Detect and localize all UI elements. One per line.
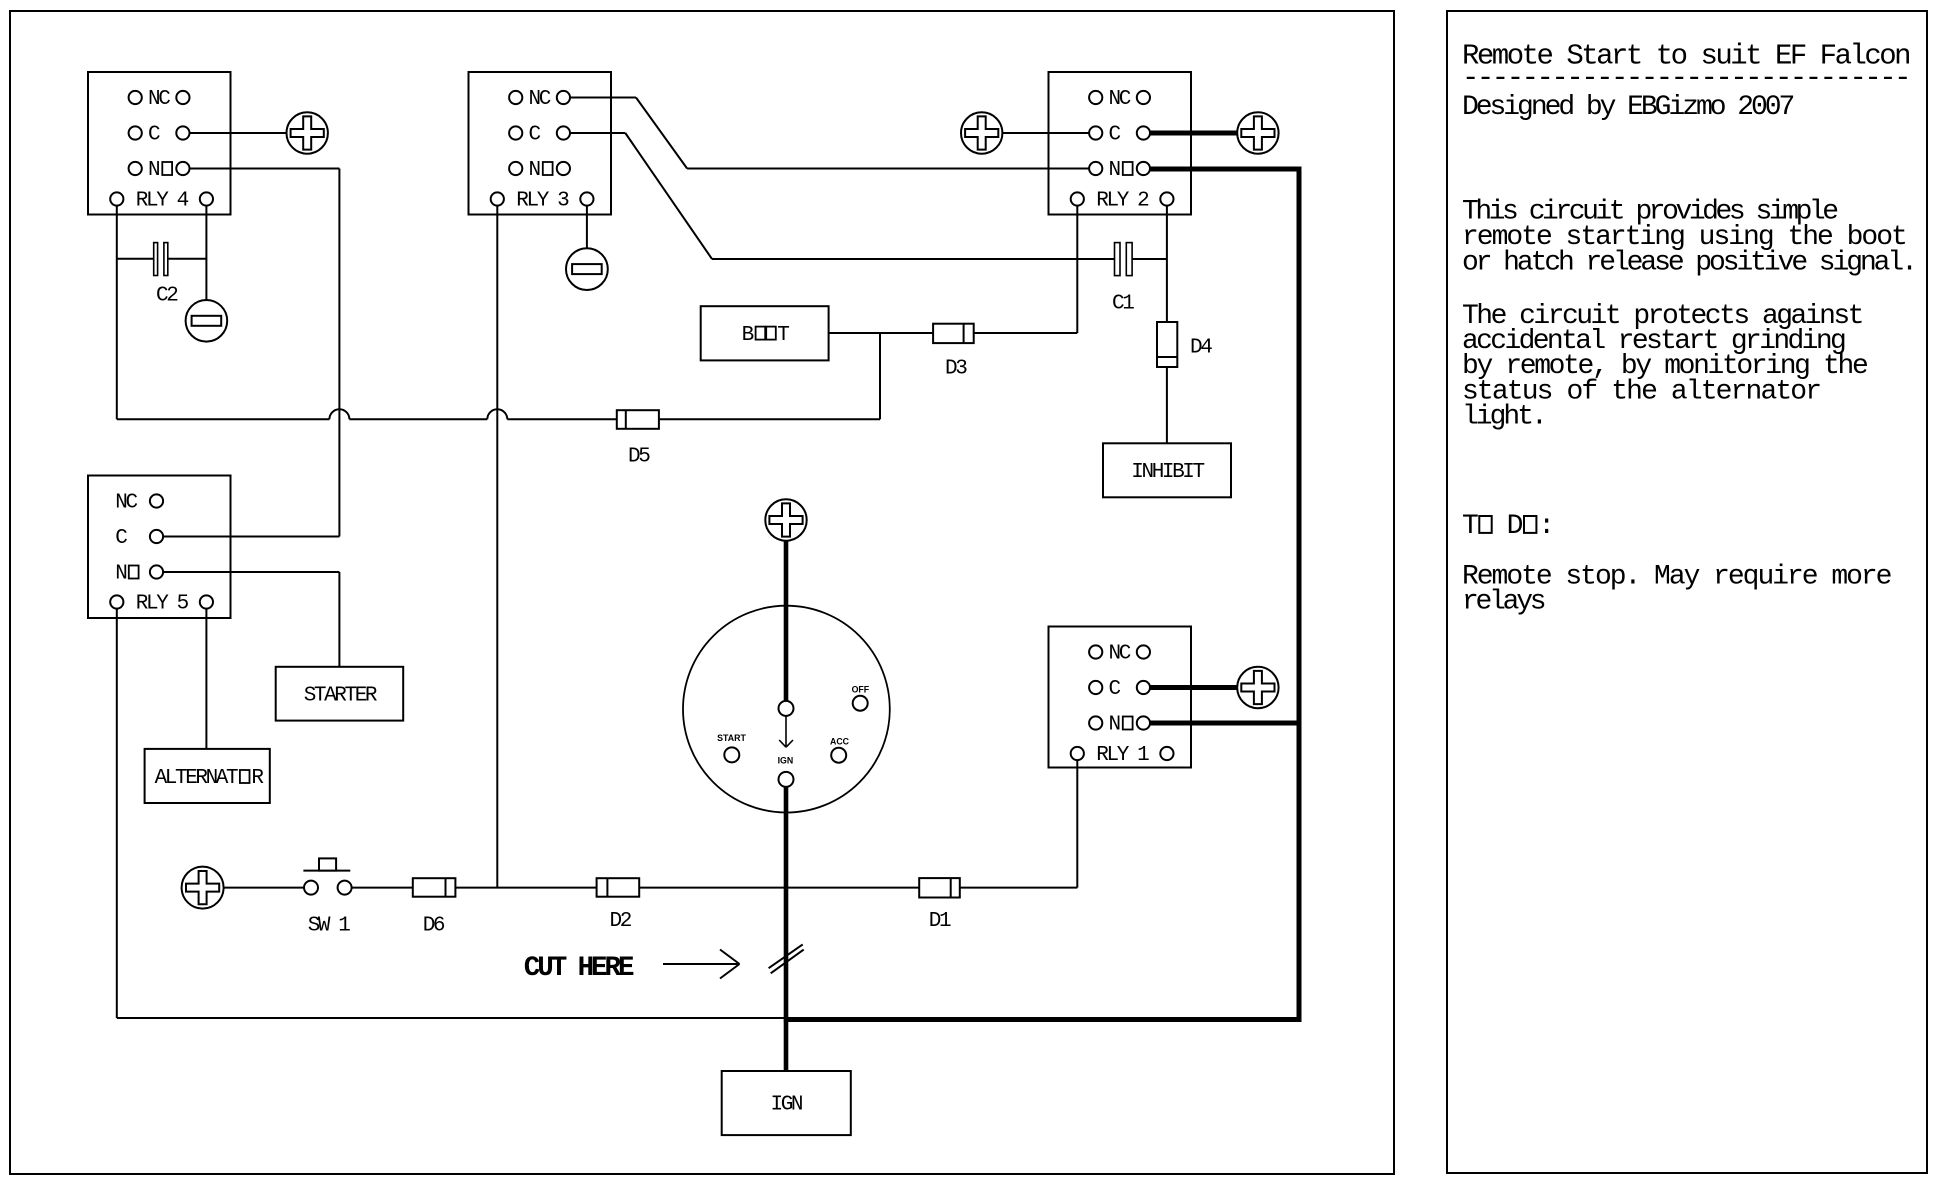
svg-text:N: N [1109,159,1120,182]
thick wire inside switch [784,606,789,703]
wire +12V to SW1 [224,887,304,889]
wire RLY3 NC pin right [570,97,636,99]
svg-text:D4: D4 [1190,337,1212,360]
svg-text:N: N [148,159,159,182]
svg-text:NC: NC [148,88,170,111]
wire D2 to D1 [639,887,919,889]
diode D4 body [1157,322,1177,367]
wire RLY3 coil left pin down to switch row [496,206,498,888]
relay RLY3 pins [491,91,594,206]
svg-text:T: T [1462,511,1479,542]
svg-text:NC: NC [1109,88,1131,111]
wire D5 net segment 3 [507,418,617,420]
ignition IGN pin [779,772,794,787]
ignition switch body circle [683,606,890,813]
wire D4 to INHIBIT [1166,367,1168,443]
ground symbol minus under RLY3 [566,248,608,290]
wire C2 left lead [117,258,154,260]
svg-text:D6: D6 [423,915,445,938]
svg-text:IGN: IGN [771,1094,802,1117]
thick wire +12V into ignition switch [784,540,789,702]
svg-text:ALTERNAT: ALTERNAT [155,767,238,790]
relay RLY1 pins [1071,645,1174,760]
wire D1 to RLY1 coil [960,887,1078,889]
STARTER box [276,667,404,721]
thick wire RLY1 C pin to +12V [1150,685,1237,690]
wire C1 right lead [1132,258,1167,260]
wire RLY2 coil right pin down [1166,206,1168,322]
BOOT box [701,306,829,360]
svg-text:RLY 5: RLY 5 [136,593,189,616]
INHIBIT box [1103,443,1231,497]
relay RLY1 box [1049,627,1192,768]
wire RLY3 C to capacitor C1 [712,258,1115,260]
svg-text:C: C [1109,678,1121,701]
ground symbol minus under RLY4 [186,300,228,342]
svg-text:or hatch release positive sign: or hatch release positive signal. [1462,248,1915,279]
ignition START pin [724,747,739,762]
power symbol +12V right of RLY2 [1237,112,1278,153]
svg-text:C: C [1109,124,1121,147]
svg-text:RLY 4: RLY 4 [136,190,189,213]
wire hop over RLY3 coil vertical [487,409,507,419]
capacitor C2 plates [154,243,158,276]
svg-text:STARTER: STARTER [304,684,378,707]
svg-text:NC: NC [1109,643,1131,666]
wire SW1 to D6 [352,887,413,889]
thin ground rail bottom [117,1017,786,1019]
power symbol +12V above ignition switch [765,499,806,540]
svg-text:T: T [777,324,789,347]
notes panel border [1447,11,1927,1173]
svg-text:NC: NC [115,492,137,515]
wire RLY2 coil left pin down [1076,206,1078,333]
svg-text:C2: C2 [156,285,178,308]
power symbol +12V near RLY4 [287,112,328,153]
thick wire RLY2 C right pin to +12V [1150,131,1237,136]
svg-text:N: N [115,563,126,586]
wire +12V to RLY2 C left pin [1002,132,1089,134]
relay RLY5 box [88,476,231,619]
thick bottom bus [784,1017,1302,1022]
svg-text:C: C [148,124,160,147]
svg-text:C: C [115,527,127,550]
ignition ACC pin [831,748,846,763]
wire diagonal RLY3 C to C1 net [625,133,712,259]
svg-text:C: C [529,124,541,147]
svg-text:CUT HERE: CUT HERE [524,953,634,984]
svg-text:SW 1: SW 1 [308,915,351,938]
wire RLY4 NO pin right [190,168,340,170]
diode D3 body [933,324,974,343]
diode D2 body [597,878,640,897]
wire RLY5 coil left pin down to ground rail [116,609,118,1018]
ALTERNATOR box [145,749,270,803]
wire D5 net segment 2 [349,418,487,420]
wire RLY3 coil right pin down to ground [586,206,588,249]
svg-text:N: N [1109,714,1120,737]
thick right bus vertical [1297,167,1302,1023]
wire RLY5 C pin right [163,536,339,538]
wire C2 right lead [168,258,207,260]
svg-text:------------------------------: ------------------------------ [1462,62,1909,95]
wire RLY3 NC to RLY2 NO left pin [687,168,1089,170]
wire diagonal RLY3 NC to RLY2 NO net [636,98,687,169]
svg-text:IGN: IGN [778,756,794,766]
svg-text:NC: NC [529,88,551,111]
thick wire RLY1 NO pin to right bus [1150,721,1302,726]
svg-text:D2: D2 [610,910,632,933]
relay RLY4 pins [110,91,213,206]
wire D5 to BOOT junction [659,418,880,420]
wire node RLY4-NO down to RLY5 C [338,169,340,537]
svg-text:RLY 1: RLY 1 [1096,744,1149,767]
svg-text:OFF: OFF [852,685,870,695]
ignition switch center pin [779,701,794,716]
capacitor C1 plates [1115,243,1121,276]
svg-text::: : [1538,511,1555,542]
relay RLY5 pins [110,494,213,608]
wire RLY3 C pin right [570,132,625,134]
thick wire RLY2 NO pin to right bus [1150,167,1302,172]
power symbol +12V bottom left [182,867,224,909]
svg-text:INHIBIT: INHIBIT [1131,461,1204,484]
cut here arrow [663,963,738,965]
diode D1 body [919,878,960,897]
wire RLY4 coil right pin down to ground [205,206,207,300]
relay RLY4 box [88,72,231,215]
relay RLY2 pins [1071,91,1174,206]
wire D6 to D2 [455,887,596,889]
wire RLY5 NO pin right [163,571,339,573]
svg-text:B: B [742,324,754,347]
wire RLY4 C pin to +12V [190,132,287,134]
svg-text:D: D [1507,511,1524,542]
svg-text:RLY 3: RLY 3 [516,190,569,213]
wire RLY5 NO down to STARTER [338,572,340,667]
diode D5 body [617,410,659,429]
svg-text:D1: D1 [929,910,951,933]
svg-text:light.: light. [1462,402,1545,433]
svg-text:D3: D3 [945,357,967,380]
svg-text:D5: D5 [628,446,650,469]
wire junction BOOT net down to D5 net [879,333,881,419]
IGN box [722,1071,851,1135]
wire D5 net segment 1 [117,418,330,420]
wire hop over RLY5-C vertical [329,409,349,419]
thick wire IGN pin down to IGN box [784,787,789,1071]
relay RLY2 box [1049,72,1192,215]
svg-text:Designed by EBGizmo 2007: Designed by EBGizmo 2007 [1462,92,1794,123]
svg-text:relays: relays [1462,587,1545,618]
wire RLY5 coil right pin to ALTERNATOR [205,609,207,749]
power symbol +12V left of RLY2 [961,112,1002,153]
schematic sheet border [10,11,1394,1174]
svg-text:RLY 2: RLY 2 [1096,190,1149,213]
switch SW1 pushbutton [303,870,350,872]
relay RLY3 box [469,72,612,215]
svg-text:START: START [717,733,746,743]
cut mark slashes [769,944,803,968]
power symbol +12V right of RLY1 [1237,667,1278,708]
wire D3 to RLY2 coil [974,332,1078,334]
diode D6 body [413,878,456,897]
rotor arrow [785,716,787,747]
svg-text:C1: C1 [1112,293,1134,316]
wire RLY1 coil left pin down [1076,760,1078,888]
svg-text:ACC: ACC [830,737,850,747]
ignition OFF pin [853,696,868,711]
wire BOOT to D3 [829,332,934,334]
svg-text:N: N [529,159,540,182]
wire RLY4 coil left pin down [116,206,118,420]
